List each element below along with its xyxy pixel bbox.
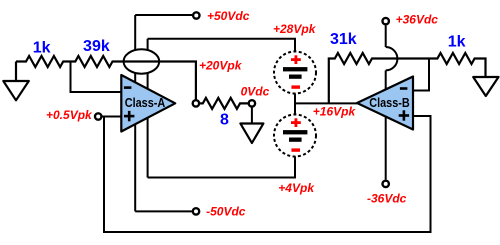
crossover ellipse on feedback wire (rails A and B hop) [124,49,160,73]
ground GND1 (left) [15,62,17,82]
wire Class-B inverting input to feedback junction [413,59,429,91]
svg-text:-36Vdc: -36Vdc [367,192,407,206]
op-amp U1 Class-A triangle [121,75,175,132]
wire node A junction down to Class-A inverting input [71,62,122,93]
svg-text:+0.5Vpk: +0.5Vpk [46,108,93,122]
ground GND3 (right) [473,77,498,96]
wire +50Vdc feed [135,14,196,16]
svg-text:1k: 1k [448,34,466,51]
resistor R5 8 ohm speaker load [196,98,252,109]
svg-text:8: 8 [220,112,229,129]
wire bottom loop from +0.5Vpk node to Class-B non-inverting input [104,116,431,232]
node 0Vdc [249,100,255,106]
wire -50Vdc feed [135,210,196,212]
voltage source V1 +28Vpk (dashed circle battery) [274,52,316,94]
svg-text:+20Vpk: +20Vpk [199,59,243,73]
resistor R3 31k with lead down to output node [329,53,429,103]
svg-text:+16Vpk: +16Vpk [313,105,357,119]
wire rail B to +4Vpk source bottom [148,157,295,178]
terminal +50Vdc [193,12,199,18]
wire vertical rail A (+50Vdc to -50Vdc through Class-A) [134,15,136,211]
voltage source V2 +4Vpk (dashed circle battery) [274,115,316,157]
resistor R4 1k (right) [429,53,486,77]
op-amp U1 plus sign [124,115,134,118]
wire crossover hop on +36Vdc line [386,47,398,70]
resistor R1 1k + resistor R2 39k + feedback wire run to output node [16,56,196,103]
op-amp U1 minus sign [124,86,131,89]
svg-text:Class-B: Class-B [369,96,410,110]
ground GND2 (middle, 0Vdc) [240,124,263,144]
svg-text:+50Vdc: +50Vdc [207,9,250,23]
wire +0.5Vpk terminal to Class-A non-inverting input [98,116,121,118]
terminal +0.5Vpk [95,113,101,119]
svg-text:+36Vdc: +36Vdc [396,13,439,27]
wire rail B to +28Vpk source top [148,39,295,52]
terminal -36Vdc [383,181,389,187]
svg-text:1k: 1k [33,40,51,57]
svg-text:-50Vdc: -50Vdc [206,205,246,219]
svg-text:Class-A: Class-A [125,96,166,110]
op-amp U2 minus sign [400,87,408,90]
op-amp U2 plus sign [399,114,409,117]
wire +36Vdc supply stub into Class-B top [385,25,387,47]
terminal +36Vdc [383,18,389,24]
wire between stacked sources with tee to Class-B output [294,94,296,115]
wire vertical rail B (+28Vpk top wire to +4Vpk bottom wire through Class-A) [147,39,149,178]
op-amp U2 Class-B triangle [357,77,413,130]
node output of Class-A [193,100,199,106]
svg-text:39k: 39k [83,38,110,55]
svg-text:+4Vpk: +4Vpk [278,181,315,195]
wire Class-B output to sources junction [295,102,357,104]
svg-text:31k: 31k [330,31,357,48]
terminal -50Vdc [193,208,199,214]
wire 0Vdc node to ground [251,103,253,123]
svg-text:+28Vpk: +28Vpk [273,22,317,36]
wire -36Vdc supply stub from Class-B bottom [385,70,387,179]
svg-text:0Vdc: 0Vdc [241,84,270,98]
